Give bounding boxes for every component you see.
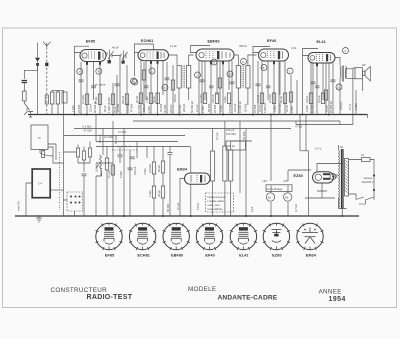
svg-text:47 kΩ: 47 kΩ: [295, 125, 302, 129]
svg-text:47 000: 47 000: [118, 130, 127, 134]
junction dot: [157, 114, 159, 116]
junction dot: [222, 114, 224, 116]
svg-text:47 000: 47 000: [84, 129, 93, 133]
wire: [143, 62, 145, 115]
resistor under cadre: [42, 151, 45, 158]
resistor: [289, 92, 292, 102]
svg-text:100 pF: 100 pF: [133, 166, 137, 175]
resistor R4: [125, 94, 128, 105]
pin wires of V1: [87, 62, 100, 115]
pin tick V2: [150, 61, 152, 64]
svg-text:10 000 pF: 10 000 pF: [329, 101, 333, 113]
svg-text:5A: 5A: [340, 145, 343, 149]
pin tick V2b: [157, 61, 159, 64]
test point 5: [132, 79, 138, 85]
svg-text:200 pF: 200 pF: [182, 103, 186, 112]
resistor: [142, 70, 145, 80]
svg-text:50: 50: [285, 196, 288, 200]
svg-text:50 pF: 50 pF: [152, 96, 156, 103]
svg-text:50: 50: [268, 196, 271, 200]
resistor R3: [111, 94, 114, 105]
test point 11: [149, 68, 155, 74]
resistor R11: [260, 93, 263, 104]
svg-text:1 500 Ω: 1 500 Ω: [107, 104, 111, 113]
wire: [290, 75, 292, 115]
mains fuse: [362, 158, 371, 162]
test point 6: [162, 85, 168, 91]
svg-text:455 kc: 455 kc: [173, 93, 177, 102]
wire plate to output transformer: [335, 58, 340, 66]
svg-text:1954: 1954: [329, 296, 346, 303]
test point 2: [195, 72, 201, 78]
capacitor C6: [315, 86, 320, 88]
wire: [64, 200, 75, 216]
resistor R ant: [23, 91, 27, 101]
wire: [24, 62, 37, 79]
svg-text:456 kc: 456 kc: [239, 44, 248, 48]
wire: [154, 147, 170, 217]
svg-text:20 pF: 20 pF: [113, 106, 117, 113]
svg-text:0,1 MΩ: 0,1 MΩ: [83, 125, 92, 129]
svg-text:1 MΩ: 1 MΩ: [145, 97, 149, 104]
svg-text:0,5 MΩ: 0,5 MΩ: [148, 164, 152, 173]
junction dot: [36, 63, 39, 66]
wire HT+ rail: [28, 114, 368, 116]
capacitor C4: [209, 86, 214, 88]
svg-text:47 000: 47 000: [130, 103, 134, 112]
potentiometer volume: [96, 155, 102, 176]
svg-text:5 000: 5 000: [219, 105, 223, 112]
pin tick V3: [210, 62, 212, 65]
svg-text:EF40: EF40: [267, 39, 276, 43]
capacitor C7: [130, 157, 135, 159]
wire grid cap: [191, 46, 211, 53]
switch to ground: [24, 103, 30, 115]
svg-text:3 4: 3 4: [38, 182, 42, 186]
svg-text:110/245 V: 110/245 V: [362, 180, 374, 184]
resistor R14: [309, 93, 312, 104]
test point 3: [343, 48, 349, 54]
capacitor: [165, 78, 170, 80]
switch wafer cluster: [77, 148, 80, 157]
tuning gang CV2: [121, 51, 128, 63]
wire: [234, 55, 257, 115]
wire: [366, 197, 375, 204]
resistor: [324, 90, 327, 100]
pin wires of V3: [199, 61, 229, 115]
socket EL41: [230, 223, 257, 257]
socket EM34: [296, 223, 323, 257]
pin tick V4: [273, 62, 275, 65]
filter capacitor box: [266, 185, 292, 192]
svg-text:EF40: EF40: [205, 253, 214, 257]
switch mains: [356, 197, 374, 200]
svg-text:2 000: 2 000: [290, 106, 294, 113]
svg-text:volts; pour: volts; pour: [208, 203, 221, 207]
svg-text:0,1 µF: 0,1 µF: [176, 202, 180, 210]
capacitor: [311, 82, 316, 84]
svg-text:ECH81: ECH81: [138, 253, 151, 257]
svg-text:25 000: 25 000: [213, 104, 217, 113]
frame antenna cadre (double border): [32, 169, 50, 198]
resistor R15: [321, 93, 324, 104]
svg-text:0,5 µF: 0,5 µF: [317, 95, 321, 103]
svg-text:100 000: 100 000: [226, 132, 236, 136]
resistor: [171, 80, 174, 90]
svg-text:EBF80: EBF80: [208, 40, 220, 44]
junction dot: [341, 215, 343, 217]
wire antenna lead dashed: [46, 47, 48, 114]
wire: [134, 53, 136, 77]
wire: [278, 61, 280, 115]
svg-text:5 000: 5 000: [107, 97, 111, 104]
svg-text:13: 13: [228, 72, 231, 76]
svg-text:20 000: 20 000: [99, 167, 103, 176]
wire secondary rail: [133, 120, 340, 122]
ground chassis: [36, 215, 42, 222]
resistor R22: [161, 186, 164, 198]
coil group left: [52, 90, 64, 92]
svg-text:EZ80: EZ80: [294, 174, 303, 178]
junction dot: [86, 114, 88, 116]
wire pot to ground: [95, 176, 97, 216]
pin wires of V4: [262, 61, 285, 115]
junction dot: [45, 63, 48, 67]
wire: [213, 121, 231, 216]
filter cap 50uF b: [284, 193, 292, 201]
svg-text:50 000: 50 000: [114, 135, 118, 144]
resistor R16: [51, 92, 54, 104]
resistor R8: [203, 93, 206, 104]
svg-text:150 Ω: 150 Ω: [305, 96, 309, 103]
svg-text:200 pF: 200 pF: [121, 95, 125, 104]
test point 13: [227, 71, 233, 77]
wire: [50, 189, 63, 191]
wire long vertical: [63, 90, 65, 216]
mains plug dots: [373, 174, 375, 176]
test point 1: [287, 68, 293, 74]
wire mid extra 1: [96, 147, 130, 217]
wire: [296, 80, 298, 115]
wire mains: [349, 160, 375, 200]
wire: [26, 183, 32, 216]
svg-text:5 000: 5 000: [119, 171, 123, 178]
svg-text:25 µF: 25 µF: [325, 105, 329, 112]
wire dotted mechanical link: [59, 152, 61, 210]
wire: [52, 90, 58, 114]
wire: [257, 61, 259, 115]
resistor chain R19: [152, 162, 155, 174]
pin tick V3b: [222, 62, 224, 65]
svg-text:100 pF: 100 pF: [233, 103, 237, 112]
wire AVC line 0: [64, 135, 186, 137]
svg-text:250 pF: 250 pF: [339, 101, 343, 110]
svg-text:0,5 µF: 0,5 µF: [258, 104, 262, 112]
svg-text:0,5 MΩ: 0,5 MΩ: [268, 94, 272, 103]
svg-text:HP: HP: [362, 63, 366, 67]
svg-text:EZ80: EZ80: [272, 253, 281, 257]
wire: [166, 62, 168, 115]
resistor R21: [152, 186, 155, 198]
antenna coupling arrow: [37, 43, 39, 58]
wire mid extra 2: [119, 147, 121, 164]
wire: [355, 90, 357, 115]
socket ECH81: [129, 223, 156, 257]
power transformer TR: [339, 150, 340, 208]
svg-text:100 000: 100 000: [278, 103, 282, 113]
wire AVC line 2: [96, 146, 190, 148]
wire grid cap: [135, 44, 154, 53]
svg-text:40 pF: 40 pF: [103, 105, 107, 112]
svg-text:15 000: 15 000: [178, 104, 182, 113]
dot texture row: [117, 146, 118, 147]
socket EF85: [95, 223, 122, 257]
svg-text:0,01: 0,01: [291, 46, 297, 50]
svg-text:secteur: secteur: [364, 176, 373, 180]
resistor R2: [98, 94, 101, 105]
resistor R9: [215, 93, 218, 104]
capacitor wafer: [82, 174, 87, 176]
junction dot: [328, 114, 330, 116]
svg-text:20 000: 20 000: [242, 131, 246, 140]
junction dot: [178, 114, 180, 116]
wire decoupling rail: [74, 128, 291, 130]
svg-text:0,5 MΩ: 0,5 MΩ: [95, 163, 99, 172]
svg-text:10 000 pF: 10 000 pF: [238, 101, 242, 113]
svg-text:2 MΩ: 2 MΩ: [223, 97, 227, 104]
wire: [252, 53, 254, 115]
svg-text:10 kΩ: 10 kΩ: [285, 105, 289, 112]
wire chassis ground rail: [15, 215, 359, 217]
svg-text:RADIO-TEST: RADIO-TEST: [87, 294, 133, 301]
svg-text:4,7 kΩ: 4,7 kΩ: [294, 204, 298, 212]
socket EF40: [196, 223, 223, 257]
junction dot: [190, 215, 192, 217]
svg-text:470 Ω: 470 Ω: [196, 203, 200, 210]
svg-text:5 000: 5 000: [305, 105, 309, 112]
wire EZ80 top: [300, 151, 343, 216]
wire curves to switch: [40, 144, 64, 163]
svg-text:47 Ω: 47 Ω: [348, 104, 352, 110]
wire: [340, 69, 353, 125]
resistor R18: [111, 165, 114, 175]
svg-text:100 pF: 100 pF: [98, 134, 102, 143]
svg-text:2A: 2A: [361, 153, 364, 157]
svg-text:+50: +50: [262, 179, 267, 183]
resistor on antenna lead: [45, 95, 48, 104]
test point 12: [211, 59, 217, 65]
capacitor C3: [144, 86, 149, 88]
wire: [180, 147, 191, 217]
pin wires of V2: [141, 61, 163, 115]
wire: [333, 145, 347, 216]
coil L1 box: [62, 92, 67, 103]
svg-text:22 000: 22 000: [253, 104, 257, 113]
pin wires of V5: [311, 63, 329, 115]
wire tuning link dotted: [112, 149, 137, 151]
svg-text:2 000: 2 000: [147, 106, 151, 113]
junction dot: [74, 114, 76, 116]
resistor R20: [161, 161, 164, 173]
capacitor C ant: [22, 81, 27, 83]
svg-text:25 µF: 25 µF: [157, 190, 161, 197]
wire: [172, 65, 174, 115]
output transformer T3: [340, 66, 347, 78]
svg-text:MODELE: MODELE: [188, 286, 216, 293]
pin tick V5: [316, 64, 318, 67]
svg-text:1 MΩ: 1 MΩ: [148, 191, 152, 198]
svg-text:40 000 pF: 40 000 pF: [93, 101, 97, 113]
wire grid return: [74, 53, 76, 115]
svg-text:20 000: 20 000: [244, 103, 248, 112]
wire: [231, 121, 252, 216]
svg-text:0,1 MΩ: 0,1 MΩ: [199, 94, 203, 103]
wire: [40, 150, 43, 154]
resistor R7: [156, 93, 159, 104]
svg-text:12 pF: 12 pF: [170, 44, 177, 48]
capacitor: [200, 80, 205, 82]
wire grid cap: [253, 47, 270, 53]
junction dot: [302, 114, 304, 116]
wire heater drop: [300, 115, 306, 151]
oscillator coil block: [211, 151, 215, 181]
test point 9: [96, 68, 102, 74]
junction dot: [245, 215, 247, 217]
svg-text:0,5 A: 0,5 A: [359, 202, 365, 206]
test point 4: [131, 78, 137, 84]
svg-text:EL41: EL41: [317, 40, 326, 44]
svg-text:f.réglée cadre: f.réglée cadre: [208, 199, 225, 203]
pilot lamp: [289, 195, 291, 197]
capacitor C5: [266, 86, 271, 88]
svg-text:8 µF: 8 µF: [250, 206, 254, 212]
wire: [332, 63, 334, 115]
IF transformer T1: [177, 66, 181, 89]
socket EBF80: [163, 223, 190, 257]
wire: [37, 64, 39, 115]
resistor mid: [105, 158, 108, 170]
switch block dashed: [67, 192, 83, 211]
svg-text:ECH81: ECH81: [141, 39, 154, 43]
test point 10: [336, 84, 342, 90]
terminal mark: [28, 112, 33, 118]
capacitor C1: [91, 86, 96, 88]
wire AVC line 1: [96, 141, 178, 143]
svg-text:6,3 V: 6,3 V: [315, 147, 321, 151]
svg-text:100 000: 100 000: [126, 103, 130, 113]
resistor R13: [283, 93, 286, 104]
svg-text:45 000: 45 000: [163, 104, 167, 113]
wire: [219, 61, 221, 115]
capacitor mid2: [118, 155, 123, 157]
svg-text:2 MΩ: 2 MΩ: [143, 169, 147, 176]
test point 8: [261, 65, 267, 71]
svg-text:73: 73: [38, 136, 41, 140]
capacitor mid: [128, 168, 133, 170]
svg-text:1 MΩ: 1 MΩ: [71, 106, 75, 113]
svg-text:ANDANTE-CADRE: ANDANTE-CADRE: [218, 294, 278, 301]
svg-text:0,1 MΩ: 0,1 MΩ: [104, 135, 113, 139]
svg-text:250 pF: 250 pF: [169, 104, 173, 113]
wire: [312, 63, 314, 115]
junction dot: [270, 114, 272, 116]
svg-text:50 µF: 50 µF: [228, 144, 235, 148]
svg-text:al. cadre: al. cadre: [95, 83, 106, 87]
svg-text:50 kΩ: 50 kΩ: [279, 96, 283, 103]
wire: [231, 61, 233, 115]
svg-text:+50: +50: [283, 179, 288, 183]
IF transformer T2: [236, 66, 240, 89]
svg-text:50 000: 50 000: [166, 203, 170, 212]
svg-text:0,1 µF: 0,1 µF: [107, 170, 111, 178]
wire EZ80 HT: [288, 169, 311, 171]
svg-text:tous calibres: tous calibres: [208, 207, 224, 211]
svg-text:0,1 µF: 0,1 µF: [195, 104, 199, 112]
pin tick V1: [86, 62, 88, 65]
svg-text:EF85: EF85: [86, 40, 95, 44]
wire: [179, 55, 194, 115]
wire: [271, 115, 288, 217]
svg-text:25 000: 25 000: [77, 104, 81, 113]
capacitor: [79, 80, 84, 82]
svg-text:EM34: EM34: [306, 253, 316, 257]
svg-text:1 MΩ: 1 MΩ: [273, 106, 277, 113]
svg-text:vers P.U.: vers P.U.: [17, 200, 21, 211]
svg-text:pot de filtrage: pot de filtrage: [266, 187, 283, 191]
test point 9: [241, 59, 247, 65]
wire plate to IF1: [169, 55, 178, 65]
junction dot: [123, 215, 125, 217]
svg-text:12: 12: [212, 60, 215, 64]
svg-text:47 000 pF: 47 000 pF: [137, 101, 141, 113]
wire grid top-cap to left: [75, 46, 90, 52]
resistor R1: [85, 94, 88, 105]
svg-text:ANNEE: ANNEE: [319, 289, 342, 296]
wire feedback: [296, 121, 353, 125]
capacitor C8: [168, 153, 173, 155]
junction dot: [162, 215, 164, 217]
resistor R12: [272, 93, 275, 104]
junction dot: [112, 114, 114, 116]
svg-text:0,1 MΩ: 0,1 MΩ: [81, 95, 85, 104]
filter cap 50uF a: [266, 193, 274, 201]
capacitor: [115, 84, 120, 86]
dashed note box: [206, 193, 234, 212]
socket EZ80: [263, 223, 290, 257]
svg-text:EL41: EL41: [239, 253, 248, 257]
svg-text:EF85: EF85: [105, 253, 114, 257]
svg-text:46 pF: 46 pF: [112, 46, 119, 50]
pilot lamp circle: [330, 174, 336, 180]
resistor R5: [139, 93, 142, 104]
svg-text:25 000: 25 000: [159, 103, 163, 112]
wire: [106, 56, 120, 115]
svg-text:EM34: EM34: [177, 168, 187, 172]
svg-text:100 pF: 100 pF: [226, 128, 235, 132]
svg-text:5 000 pF: 5 000 pF: [263, 102, 267, 113]
test point 7: [77, 69, 83, 75]
wire: [23, 101, 25, 103]
svg-text:47 000: 47 000: [310, 104, 314, 113]
capacitor: [331, 80, 336, 82]
wire: [116, 75, 118, 115]
capacitor: [256, 84, 261, 86]
wire verticals into second row: [96, 115, 147, 217]
pin tick V1b: [99, 62, 101, 65]
junction dot: [198, 114, 200, 116]
wire: [325, 63, 327, 115]
wire grid: [303, 49, 319, 56]
